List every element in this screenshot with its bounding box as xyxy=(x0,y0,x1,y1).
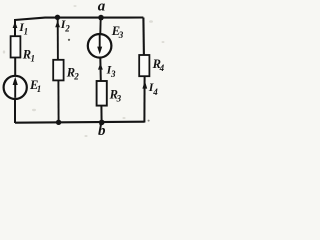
node dot top of branch2 xyxy=(55,15,60,20)
scan speck near bottom-right corner xyxy=(148,120,150,122)
E3 source arrow (down) xyxy=(99,35,101,50)
svg-text:1: 1 xyxy=(31,54,36,64)
wire branch1 mid segment xyxy=(14,58,16,76)
wire branch1 top segment xyxy=(14,19,16,37)
node dot a xyxy=(98,15,104,21)
wire branch1 bottom segment xyxy=(14,99,16,123)
resistor R3 xyxy=(97,81,107,106)
svg-text:4: 4 xyxy=(159,63,165,73)
E1 source arrow (up) xyxy=(14,80,16,98)
svg-text:2: 2 xyxy=(64,24,70,34)
svg-text:a: a xyxy=(98,0,106,14)
svg-text:3: 3 xyxy=(110,69,116,79)
svg-text:1: 1 xyxy=(24,27,29,37)
wire branch4 bottom segment xyxy=(143,76,145,123)
EMF source E1 xyxy=(4,76,27,99)
resistor R1 xyxy=(11,36,21,57)
wire bottom bus b-node xyxy=(15,122,145,123)
current arrow I2 xyxy=(55,21,60,28)
node dot b xyxy=(99,120,105,126)
current arrow I4 xyxy=(142,81,147,89)
svg-text:3: 3 xyxy=(118,30,124,40)
resistor R4 xyxy=(139,55,149,76)
current arrow I1 xyxy=(13,22,18,28)
wire branch2 bottom segment xyxy=(57,80,59,122)
svg-text:4: 4 xyxy=(152,87,158,97)
scan speck below I2 subscript xyxy=(68,39,70,41)
wire branch2 top segment xyxy=(57,18,59,61)
wire branch3 bottom segment xyxy=(100,105,102,122)
current arrow I3 xyxy=(98,63,103,70)
svg-text:1: 1 xyxy=(37,84,42,94)
resistor R2 xyxy=(53,60,63,81)
node dot bottom of branch2 xyxy=(56,120,61,125)
svg-text:b: b xyxy=(98,123,106,139)
svg-text:2: 2 xyxy=(73,72,79,82)
wire branch3 top segment xyxy=(99,18,101,34)
svg-text:3: 3 xyxy=(116,94,122,104)
wire branch4 (right edge) top segment xyxy=(142,18,145,56)
EMF source E3 xyxy=(88,34,112,58)
wire top bus a-node xyxy=(15,18,144,21)
wire branch3 mid segment xyxy=(99,58,102,82)
